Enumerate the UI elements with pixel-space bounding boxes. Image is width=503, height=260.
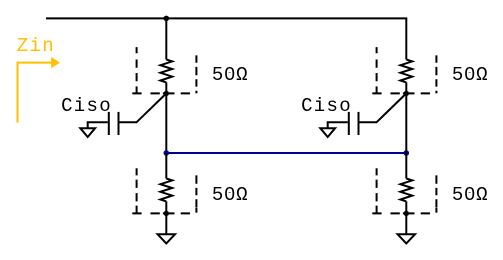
- wire: Zin reference arrow L-shape: [18, 63, 53, 123]
- node: blue junction dot left: [164, 150, 170, 156]
- wire: blue net between left and right branches: [166, 152, 406, 154]
- resistor 50ohm top-left: [160, 60, 172, 83]
- dashed box around bottom-left resistor: left edge: [136, 168, 138, 213]
- node A: junction dot below top-left resistor: [164, 91, 169, 96]
- dashed box around top-left resistor: bottom edge: [132, 92, 190, 94]
- resistor 50ohm bottom-right: [400, 179, 412, 202]
- node: junction dot of input rail and left branch: [164, 16, 170, 22]
- node: junction dot below bottom-right resistor: [404, 211, 409, 216]
- wire: right branch vertical from node B to blue node: [405, 93, 407, 153]
- ground: left ground symbol: [158, 234, 175, 243]
- wire: right ground lead: [405, 213, 407, 234]
- wire: right Ciso right plate to node B (diagonal): [360, 93, 407, 122]
- dashed box around bottom-right resistor: right edge: [435, 175, 437, 207]
- capacitor Ciso right: right plate: [358, 112, 360, 135]
- ground: right ground symbol: [398, 234, 415, 243]
- dashed box around top-left resistor: right edge: [195, 55, 197, 93]
- wire: left branch vertical from blue node to bottom resistor: [165, 153, 167, 179]
- capacitor Ciso left: right plate: [118, 112, 120, 135]
- wire: left ground lead: [165, 213, 167, 234]
- ground: right substrate arrow of Ciso: [320, 128, 335, 137]
- wire: top-right resistor bottom lead to node B: [405, 82, 407, 93]
- wire: top input rail with corner down to right branch: [46, 18, 406, 59]
- capacitor Ciso right: left plate: [348, 112, 350, 135]
- node: blue junction dot right: [404, 150, 410, 156]
- wire: left Ciso left plate to substrate arrow: [88, 122, 108, 128]
- dashed box around bottom-left resistor: bottom edge: [132, 208, 196, 213]
- wire: bottom-left resistor lead to ground node: [165, 201, 167, 213]
- wire: left branch vertical from rail to top resistor: [165, 18, 167, 59]
- patch: hide zero glyph center dots (target zeros are plain): [229, 73, 232, 76]
- wire: Zin arrowhead: [51, 57, 60, 68]
- wire: right branch vertical from blue node to bottom resistor: [405, 153, 407, 179]
- node: junction dot below bottom-left resistor: [164, 211, 169, 216]
- resistor 50ohm bottom-left: [160, 179, 172, 202]
- svg-text:Zin: Zin: [17, 35, 55, 57]
- dashed box around top-right resistor: right edge: [435, 55, 437, 93]
- dashed box around bottom-left resistor: right edge: [195, 175, 197, 207]
- wire: right branch vertical from rail corner handled above; resistor 50ohm top-right: [400, 60, 412, 83]
- ground: left substrate arrow of Ciso: [80, 128, 95, 137]
- dashed box around bottom-right resistor: left edge: [376, 168, 378, 213]
- svg-text:Ciso: Ciso: [301, 95, 352, 117]
- node B: junction dot below top-right resistor: [404, 91, 409, 96]
- wire: left Ciso right plate to node A (diagonal): [120, 93, 167, 122]
- wire: top-left resistor bottom lead to node: [165, 82, 167, 93]
- dashed box around top-right resistor: left edge: [376, 47, 378, 93]
- wire: right Ciso left plate to substrate arrow: [328, 122, 348, 128]
- svg-text:Ciso: Ciso: [61, 95, 112, 117]
- capacitor Ciso left: left plate: [108, 112, 110, 135]
- dashed box around top-right resistor: bottom edge: [372, 92, 430, 94]
- dashed box around top-left resistor: left edge: [136, 47, 138, 93]
- wire: left branch vertical from node A to blue node: [165, 93, 167, 153]
- wire: bottom-right resistor lead to ground node: [405, 201, 407, 213]
- dashed box around bottom-right resistor: bottom edge: [372, 208, 436, 213]
